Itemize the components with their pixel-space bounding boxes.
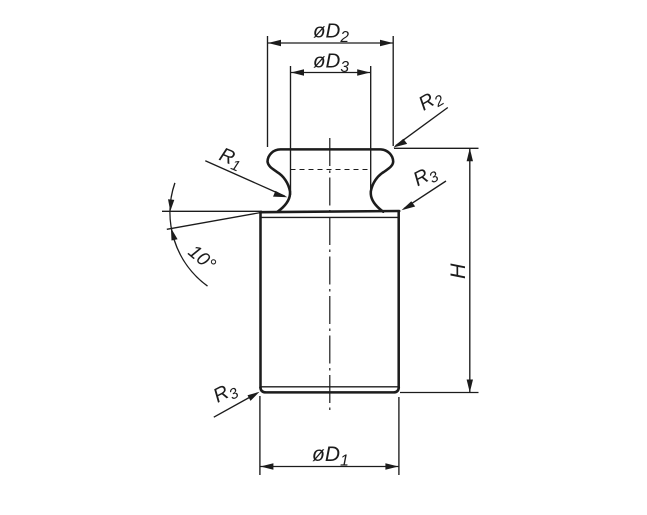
hidden line under knob (dashed, neck top)	[291, 169, 371, 171]
radius R3 lower label	[210, 377, 242, 410]
radius R3 upper leader	[402, 181, 447, 210]
weight shoulder top face edge	[260, 211, 399, 212]
radius R3 upper label	[410, 161, 442, 194]
radius R2 leader	[393, 108, 448, 148]
radius R1 label	[215, 144, 246, 176]
cylinder body right edge	[397, 211, 400, 387]
center line (vertical dash-dot axis)	[329, 138, 331, 412]
weight knob and neck outline	[268, 149, 394, 211]
cylinder body left edge	[259, 212, 262, 388]
dimension H: dimension line with arrows	[467, 148, 473, 392]
angle 10 deg: arc with arrows	[168, 183, 208, 286]
dimension D1: label	[312, 443, 349, 470]
radius R1 leader	[205, 161, 287, 198]
dimension H: label	[446, 263, 470, 279]
angle 10 deg: horizontal reference ray	[162, 210, 262, 212]
dimension D3: label	[313, 50, 349, 77]
bottom edge with rounded rim	[260, 388, 398, 393]
dimension D2: label	[313, 20, 349, 47]
svg-text:H: H	[446, 263, 470, 279]
dimension H: extension lines	[394, 148, 479, 392]
angle 10 deg: label	[184, 241, 220, 276]
dimension D2: dimension line with arrows	[268, 40, 393, 46]
dimension D3: dimension line with arrows	[291, 69, 370, 75]
radius R2 label	[415, 85, 448, 118]
radius R3 lower leader	[214, 392, 260, 417]
bottom rim inner edge line	[262, 386, 399, 388]
dimension D1: extension lines	[260, 396, 399, 475]
angle 10 deg: sloped ray	[167, 213, 261, 230]
dimension D3: extension lines	[291, 66, 371, 195]
dimension D2: extension lines	[268, 36, 394, 147]
dimension D1: dimension line with arrows	[260, 463, 398, 469]
top rim inner edge line	[262, 216, 398, 218]
